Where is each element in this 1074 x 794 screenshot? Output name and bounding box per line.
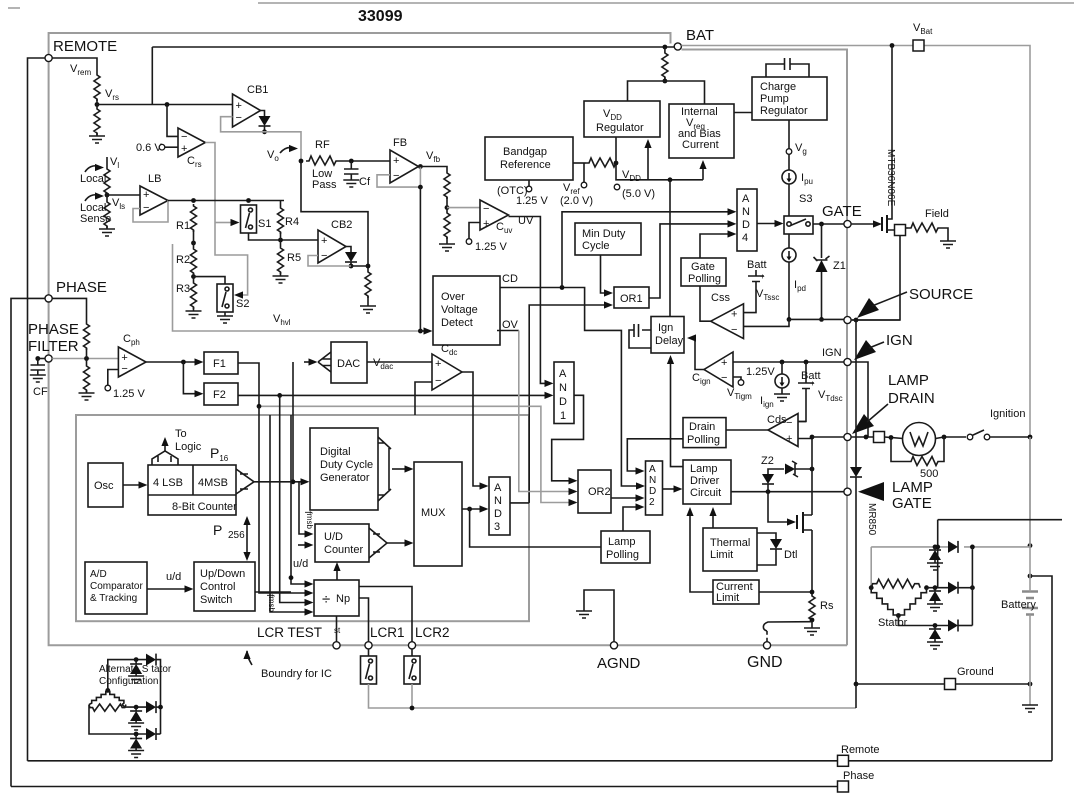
wire Np to LCR TEST pin xyxy=(336,616,338,642)
svg-text:AGND: AGND xyxy=(597,655,641,672)
svg-text:1: 1 xyxy=(560,410,566,422)
transistor MTB36N06E mosfet xyxy=(882,215,887,233)
wire remote outer left xyxy=(28,58,46,761)
pin LCR TEST xyxy=(333,642,340,649)
svg-text:Delay: Delay xyxy=(655,335,684,347)
wire LDC out xyxy=(731,491,844,493)
wire split to regulators xyxy=(628,81,705,104)
svg-text:CD: CD xyxy=(502,273,518,285)
alt freewheel diode2 xyxy=(135,707,137,711)
alt stator tap top xyxy=(108,660,146,691)
node Vo xyxy=(299,159,304,164)
wire remote pin to Vrem xyxy=(52,58,97,73)
svg-text:u/d: u/d xyxy=(166,571,181,583)
wire riser x152 xyxy=(151,47,153,105)
wire lamp gate net right xyxy=(938,519,1062,521)
wire RF to FB xyxy=(338,160,390,162)
svg-text:CF: CF xyxy=(33,386,48,398)
svg-text:REMOTE: REMOTE xyxy=(53,38,117,55)
svg-text:Boundry for IC: Boundry for IC xyxy=(261,668,332,680)
resistor bandgap xyxy=(573,162,586,164)
block Drain Polling xyxy=(683,418,726,448)
svg-text:FILTER: FILTER xyxy=(28,338,79,355)
gate OR1 xyxy=(614,287,649,308)
wire CB2 node link xyxy=(351,265,368,267)
DDCG output chevron xyxy=(378,437,391,501)
ground below Vls xyxy=(106,226,108,229)
svg-text:Cds: Cds xyxy=(767,414,787,426)
wire Vfb drop to OVD xyxy=(419,187,421,331)
svg-text:R1: R1 xyxy=(176,220,190,232)
resistor below Vrs xyxy=(94,107,100,135)
capacitor CF xyxy=(38,358,45,360)
battery xyxy=(1022,592,1038,609)
svg-text:(5.0 V): (5.0 V) xyxy=(622,188,655,200)
diode CB1 output xyxy=(261,111,265,117)
circle 1.25V cph xyxy=(108,370,119,386)
svg-text:Ignition: Ignition xyxy=(990,408,1025,420)
ground below Vrs resistor xyxy=(96,133,98,136)
node z2 right xyxy=(810,467,815,472)
ground R3 xyxy=(193,307,195,311)
square Remote xyxy=(838,755,849,766)
battery VTdsc xyxy=(804,360,809,365)
wire phase pin right xyxy=(52,298,86,322)
svg-text:GATE: GATE xyxy=(822,203,862,220)
switch LCR2 xyxy=(411,649,413,656)
svg-text:LCR TEST: LCR TEST xyxy=(257,625,322,640)
wire bottom phase line xyxy=(11,786,837,788)
ground phase xyxy=(86,390,88,393)
wire AND3 out to OR1 xyxy=(529,305,606,503)
resistor below Vls xyxy=(104,200,110,228)
wire F2 drop to Np xyxy=(280,395,307,602)
svg-text:+: + xyxy=(435,358,441,370)
svg-text:Polling: Polling xyxy=(687,434,720,446)
bus A F2 to AND1 xyxy=(238,394,547,396)
svg-text:Bandgap: Bandgap xyxy=(503,146,547,158)
svg-text:Min Duty: Min Duty xyxy=(582,228,626,240)
resistor BAT feed xyxy=(663,45,668,50)
wire current limit to LDC xyxy=(690,511,713,592)
svg-text:+: + xyxy=(143,189,149,201)
node source line xyxy=(787,317,792,322)
svg-text:To: To xyxy=(175,428,187,440)
square lamp drain terminal xyxy=(874,432,885,443)
svg-text:+: + xyxy=(721,357,727,369)
node VBat drain xyxy=(890,43,895,48)
square Ground xyxy=(945,679,956,690)
wire drain polling to Cds xyxy=(726,429,768,431)
wire CB2 feedback gray xyxy=(308,256,351,267)
wire IGN line xyxy=(733,361,844,363)
svg-text:R4: R4 xyxy=(285,216,299,228)
alt stator tap mid xyxy=(122,705,146,708)
svg-text:P: P xyxy=(213,522,222,538)
node VDD res xyxy=(614,161,619,166)
capacitor ign delay xyxy=(629,324,651,348)
svg-text:A: A xyxy=(494,482,502,494)
svg-text:Z2: Z2 xyxy=(761,455,774,467)
svg-text:A: A xyxy=(649,464,656,475)
node Z2 xyxy=(766,489,771,494)
capacitor charge pump xyxy=(766,58,809,77)
svg-text:R3: R3 xyxy=(176,283,190,295)
svg-text:SOURCE: SOURCE xyxy=(909,286,973,303)
wire current limit to Rs xyxy=(759,591,812,593)
wire phase filter net xyxy=(52,358,118,360)
wire CPR down to Vg xyxy=(788,120,790,149)
alt stator windings xyxy=(105,688,110,693)
svg-text:Driver: Driver xyxy=(690,475,720,487)
svg-text:Remote: Remote xyxy=(841,744,880,756)
node resistor top xyxy=(366,264,371,269)
block Min Duty Cycle xyxy=(575,223,641,255)
svg-text:Logic: Logic xyxy=(175,441,202,453)
ground below CB2 resistor xyxy=(367,296,369,306)
resistor Vfb bottom xyxy=(444,211,450,239)
pin BAT xyxy=(674,43,681,50)
svg-text:U/D: U/D xyxy=(324,531,343,543)
wire Vhvl gray xyxy=(173,244,425,331)
node CB1 diode xyxy=(262,129,267,134)
svg-text:CB1: CB1 xyxy=(247,84,268,96)
comparator Css xyxy=(711,304,744,339)
svg-text:+: + xyxy=(810,379,815,388)
arrow IGN xyxy=(854,340,876,360)
rectifier diode row1 xyxy=(948,541,958,553)
svg-text:D: D xyxy=(559,396,567,408)
resistor Rs xyxy=(809,594,815,622)
block DAC xyxy=(331,342,367,383)
wire DAC to Cdc xyxy=(367,361,432,363)
pin LCR1 xyxy=(365,642,372,649)
wire 0.6V to Crs plus xyxy=(165,146,178,148)
current source Ipu xyxy=(788,154,790,170)
switch LCR1 xyxy=(368,649,370,656)
alt stator tap bottom xyxy=(89,705,146,734)
svg-text:LAMP: LAMP xyxy=(888,372,929,389)
svg-text:Up/Down: Up/Down xyxy=(200,568,245,580)
block 8-bit counter xyxy=(148,465,236,515)
wire 1.25 to Cuv plus xyxy=(469,223,480,239)
wire to F2 xyxy=(183,362,197,394)
wire S3 to GATE xyxy=(813,223,844,225)
pin LAMP DRAIN xyxy=(844,433,851,440)
block Ign Delay xyxy=(651,317,684,354)
gate AND4 xyxy=(737,189,757,251)
wire Vrs bus xyxy=(97,104,233,106)
UD counter output chevron xyxy=(369,528,387,558)
gate AND3 xyxy=(489,477,510,535)
svg-text:1.25V: 1.25V xyxy=(746,366,775,378)
svg-text:−: − xyxy=(483,203,489,215)
svg-text:Voltage: Voltage xyxy=(441,304,478,316)
svg-text:MUX: MUX xyxy=(421,507,446,519)
svg-text:S3: S3 xyxy=(799,193,812,205)
svg-text:+: + xyxy=(236,100,242,112)
svg-text:Regulator: Regulator xyxy=(596,122,644,134)
wire fmsb to UD counter xyxy=(299,482,307,534)
block Lamp Polling xyxy=(601,531,650,563)
svg-text:DRAIN: DRAIN xyxy=(888,390,935,407)
gray digital box xyxy=(76,415,529,621)
svg-text:+: + xyxy=(181,143,187,155)
block Digital Duty Cycle Generator xyxy=(310,428,378,510)
svg-text:u/d: u/d xyxy=(293,558,308,570)
svg-text:−: − xyxy=(786,417,792,429)
chevron DAC input xyxy=(292,362,294,482)
resistor phase bottom xyxy=(84,364,90,392)
svg-text:IGN: IGN xyxy=(886,332,913,349)
svg-text:D: D xyxy=(649,486,656,497)
svg-text:PHASE: PHASE xyxy=(56,279,107,296)
wire AND2 to LDC xyxy=(663,488,677,490)
wire gate polling riser to AND4 xyxy=(700,234,730,258)
wire vrs down xyxy=(96,99,98,107)
svg-text:Drain: Drain xyxy=(689,421,715,433)
comparator Cign xyxy=(704,352,733,387)
svg-text:LCR2: LCR2 xyxy=(415,625,450,640)
resistor Field xyxy=(906,227,909,229)
svg-text:Generator: Generator xyxy=(320,472,370,484)
op-amp CB2 xyxy=(318,230,346,263)
alt freewheel diode3 xyxy=(135,734,137,739)
page top border line xyxy=(8,3,1074,8)
block Np xyxy=(314,580,359,616)
node CD branch xyxy=(560,285,565,290)
gate AND2 xyxy=(646,461,663,515)
svg-text:Dtl: Dtl xyxy=(784,549,797,561)
zener Z1 xyxy=(821,224,823,258)
svg-text:Field: Field xyxy=(925,208,949,220)
wire Crs output gray xyxy=(205,143,247,296)
rectifier diode row2 xyxy=(927,587,949,589)
svg-text:÷: ÷ xyxy=(322,591,330,608)
svg-text:F2: F2 xyxy=(213,389,226,401)
circle 0.6V xyxy=(159,144,165,150)
wire VDD node down rail xyxy=(616,163,703,180)
ground R5 xyxy=(280,272,282,276)
wire Cds plus xyxy=(798,437,812,439)
resistor R1 xyxy=(191,204,197,232)
capacitor Cf xyxy=(344,161,359,180)
svg-text:MTB36N06E: MTB36N06E xyxy=(885,149,896,207)
svg-text:Local: Local xyxy=(80,173,106,185)
svg-text:Ign: Ign xyxy=(658,322,673,334)
svg-text:Lamp: Lamp xyxy=(608,536,636,548)
pin LAMP GATE xyxy=(844,488,851,495)
node divider xyxy=(445,205,450,210)
ground S2 xyxy=(224,312,226,316)
lamp xyxy=(903,423,936,456)
wire UV to AND1 xyxy=(509,217,548,384)
resistor phase top xyxy=(84,322,90,350)
wire Cdc out to AND3 xyxy=(462,372,482,486)
wire AGND ground xyxy=(584,590,614,642)
svg-text:OR2: OR2 xyxy=(588,486,611,498)
pin LCR2 xyxy=(408,642,415,649)
node Vfb xyxy=(418,164,423,169)
wire MUX out to lamp polling xyxy=(470,509,601,547)
wire source line xyxy=(744,319,901,326)
ground battery xyxy=(1022,705,1038,712)
svg-text:+: + xyxy=(731,309,737,321)
svg-text:N: N xyxy=(649,475,656,486)
ground divider xyxy=(446,237,448,244)
wire divider to Cuv xyxy=(447,207,480,209)
svg-text:Reference: Reference xyxy=(500,159,551,171)
resistor Vrem xyxy=(94,73,100,101)
svg-text:Z1: Z1 xyxy=(833,260,846,272)
wire CD riser to AND4 xyxy=(562,212,730,288)
block AD Comparator Tracking xyxy=(85,562,147,614)
wire bus C verticals to Np xyxy=(270,415,307,612)
svg-text:−: − xyxy=(393,170,399,182)
rectifier bus xyxy=(971,547,973,626)
wire internal to CPR xyxy=(734,112,752,114)
svg-text:0.6 V: 0.6 V xyxy=(136,142,162,154)
arrow LAMP DRAIN xyxy=(852,414,874,434)
pin GATE xyxy=(844,220,851,227)
svg-text:Limit: Limit xyxy=(716,592,739,604)
counter output chevron xyxy=(236,469,254,494)
svg-text:−: − xyxy=(435,375,441,387)
svg-text:Counter: Counter xyxy=(324,544,363,556)
svg-text:+: + xyxy=(760,272,765,281)
stator windings xyxy=(869,585,874,590)
freewheel diode2 xyxy=(933,585,938,590)
svg-text:IGN: IGN xyxy=(822,347,842,359)
node R2 R3 xyxy=(191,274,196,279)
svg-text:OR1: OR1 xyxy=(620,293,643,305)
svg-text:33099: 33099 xyxy=(358,8,403,25)
wire R2R3 to S2 xyxy=(194,277,226,285)
node Z1 top xyxy=(819,222,824,227)
freewheel diode1 xyxy=(933,545,938,550)
op-amp Cuv xyxy=(480,200,509,230)
gate AND1 xyxy=(554,362,574,424)
wire stator left tap xyxy=(870,547,872,588)
wire BAT to VBat xyxy=(681,46,1030,547)
svg-text:8-Bit Counter: 8-Bit Counter xyxy=(172,501,237,513)
svg-text:FB: FB xyxy=(393,137,407,149)
rectifier diode row3 xyxy=(898,616,948,626)
svg-text:Polling: Polling xyxy=(688,273,721,285)
block Bandgap Reference xyxy=(485,137,573,180)
svg-text:−: − xyxy=(236,112,242,124)
op-amp CB1 xyxy=(233,94,261,127)
wire Vls to LB plus xyxy=(107,194,140,196)
node Cf xyxy=(349,159,354,164)
wire Ipu to S3 xyxy=(788,184,790,216)
svg-text:Control: Control xyxy=(200,581,235,593)
wire Vo drop to resistor xyxy=(301,161,368,270)
square field terminal xyxy=(895,225,906,236)
op-amp FB xyxy=(390,150,419,183)
resistor 500 xyxy=(891,438,908,462)
block Internal Vreg and Bias Current xyxy=(669,104,734,158)
svg-text:+: + xyxy=(483,218,489,230)
wire OR2 to AND2 xyxy=(611,497,638,499)
wire LB feedback gray xyxy=(133,201,168,223)
svg-text:−: − xyxy=(143,202,149,214)
resistor R2 xyxy=(191,247,197,275)
resistor R5 xyxy=(280,240,282,246)
wire up to VDD regulator xyxy=(615,137,617,163)
pin AGND xyxy=(610,642,617,649)
alt freewheel diode1 xyxy=(135,660,137,664)
wire phase outer xyxy=(11,298,45,786)
svg-text:F1: F1 xyxy=(213,358,226,370)
svg-text:500: 500 xyxy=(920,468,938,480)
resistor Vfb top xyxy=(444,171,450,199)
svg-text:OV: OV xyxy=(502,319,519,331)
wire OR1 to AND4 xyxy=(649,224,730,298)
wire thermal to LDC xyxy=(712,511,714,528)
svg-text:Over: Over xyxy=(441,291,465,303)
svg-text:A/D: A/D xyxy=(90,569,107,580)
wire ground row xyxy=(854,682,859,687)
svg-text:3: 3 xyxy=(494,521,500,533)
svg-text:4 LSB: 4 LSB xyxy=(153,477,183,489)
svg-text:S1: S1 xyxy=(258,218,271,230)
pin IGN xyxy=(844,358,851,365)
wire S1 bottom to CB2 xyxy=(249,233,319,240)
svg-text:2: 2 xyxy=(649,497,655,508)
wire Cds minus to VTdsc xyxy=(798,421,806,423)
node R1 R2 xyxy=(191,241,196,246)
wire riser 812 xyxy=(811,437,813,592)
switch S3 xyxy=(784,216,813,234)
wire CD line to AND2 xyxy=(500,288,639,487)
svg-text:Digital: Digital xyxy=(320,446,351,458)
svg-text:A: A xyxy=(742,193,750,205)
current source Iign xyxy=(780,360,785,365)
wire rail down to Ign Delay xyxy=(669,180,671,317)
wire top BAT feed xyxy=(152,46,674,48)
wire LCR bottoms xyxy=(369,684,857,708)
svg-text:Phase: Phase xyxy=(843,770,874,782)
wire stator top rail xyxy=(871,546,1030,548)
block UD Counter xyxy=(315,524,369,562)
wire lamp drain xyxy=(812,436,869,438)
wire Css out to gate polling xyxy=(700,286,711,321)
wire lamp polling to AND2 xyxy=(623,507,638,531)
bus B gray xyxy=(259,406,571,502)
ignition switch xyxy=(967,434,973,440)
wire drain polling to AND2 xyxy=(627,439,683,471)
circle VDD xyxy=(614,184,620,190)
svg-text:GATE: GATE xyxy=(892,495,932,512)
node Vls xyxy=(105,193,110,198)
pin GND xyxy=(763,642,770,649)
wire Np to UD counter xyxy=(336,566,338,580)
svg-text:D: D xyxy=(494,508,502,520)
diode Dtl xyxy=(757,533,776,539)
outer frame bottom left xyxy=(27,760,29,762)
wire Cph out xyxy=(146,361,197,363)
svg-text:S2: S2 xyxy=(236,298,249,310)
svg-text:DAC: DAC xyxy=(337,358,360,370)
wire source down xyxy=(852,236,900,321)
wire Cign out to ign delay xyxy=(690,338,704,370)
svg-text:+: + xyxy=(393,155,399,167)
svg-text:−: − xyxy=(181,131,187,143)
svg-text:st: st xyxy=(334,626,341,635)
pin REMOTE xyxy=(45,54,52,61)
pin PHASE xyxy=(45,295,52,302)
